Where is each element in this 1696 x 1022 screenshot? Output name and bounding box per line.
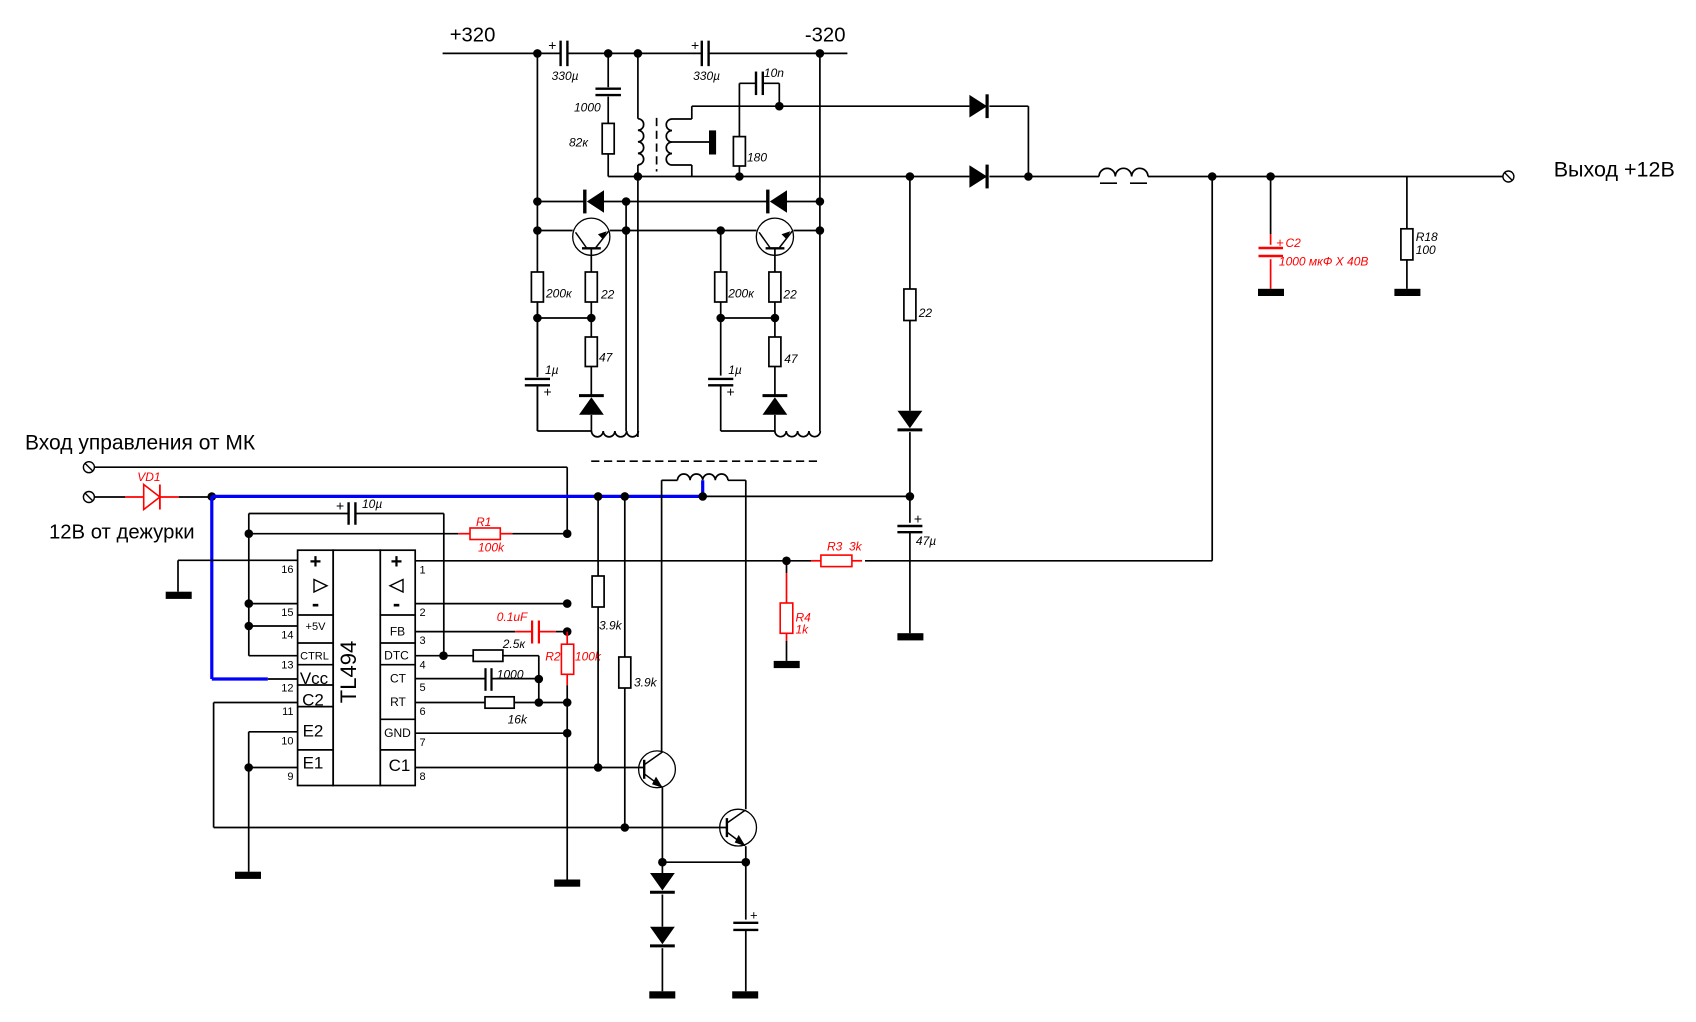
svg-text:6: 6 — [420, 706, 426, 718]
svg-text:10n: 10n — [764, 66, 784, 80]
junction R1 node — [245, 529, 254, 538]
wire blue 12V net — [212, 480, 703, 679]
resistor R2 100k — [545, 632, 602, 703]
resistor 47 #2 — [769, 318, 799, 367]
svg-text:Vcc: Vcc — [300, 669, 329, 688]
svg-text:+5V: +5V — [306, 621, 327, 633]
junction 318 a — [533, 314, 542, 323]
wire pin12 Vcc stub — [268, 678, 298, 680]
transistor Q1 — [573, 218, 610, 255]
junction x=1270.6 — [1266, 172, 1275, 181]
capacitor 1u #1 — [525, 318, 559, 400]
U1 pin numbers — [281, 564, 425, 783]
wire 10n right lead — [763, 83, 780, 106]
junction R1 right — [563, 529, 572, 538]
junction base row x=537.4 — [533, 226, 542, 235]
wire link y=318 cell2 — [721, 302, 775, 318]
label 12В от дежурки — [49, 522, 195, 544]
junction pin15 — [245, 599, 254, 608]
svg-text:+: + — [914, 511, 922, 527]
svg-text:1µ: 1µ — [545, 363, 559, 377]
capacitor electrolytic Q4 — [733, 862, 758, 991]
terminal output — [1503, 171, 1514, 182]
svg-text:E1: E1 — [303, 754, 324, 773]
junction blue tap — [698, 492, 707, 501]
wire Q1 base lead — [590, 248, 592, 272]
junction E1/E2 — [244, 763, 253, 772]
junction top rail x=608.2 — [604, 49, 613, 58]
wire input1 to x=567.2 — [94, 467, 567, 534]
svg-text:C2: C2 — [302, 691, 324, 710]
wire blue to 47u — [703, 495, 910, 497]
svg-text:8: 8 — [420, 771, 426, 783]
junction pin2 — [563, 599, 572, 608]
ground R4 — [774, 661, 800, 668]
junction 10n at y=106 — [775, 102, 784, 111]
svg-text:1000: 1000 — [574, 101, 601, 115]
svg-text:1: 1 — [420, 564, 426, 576]
resistor 22 #1 — [585, 272, 614, 302]
ground E1 — [235, 872, 261, 879]
junction blue x=909.9 — [906, 492, 915, 501]
capacitor 0.1uF — [415, 610, 567, 644]
U1 cell labels — [300, 551, 411, 775]
wire VD1 to junction — [179, 496, 212, 498]
resistor 3.9k #2 — [619, 496, 658, 827]
label Выход +12В — [1554, 158, 1675, 182]
resistor R1 100k — [249, 515, 567, 555]
junction GND pin7 — [563, 729, 572, 738]
diode D3 — [579, 367, 604, 432]
wire 200k2 top — [720, 231, 722, 273]
svg-text:100k: 100k — [478, 541, 505, 555]
svg-text:RT: RT — [390, 695, 406, 709]
svg-text:TL494: TL494 — [336, 641, 361, 703]
ground x567 — [554, 880, 580, 887]
capacitor 1000 CT — [415, 668, 539, 691]
svg-text:+320: +320 — [450, 25, 496, 47]
svg-text:5: 5 — [420, 682, 426, 694]
wire Q3 emitter — [661, 787, 663, 862]
wire emitter link — [662, 861, 745, 863]
wire pin15 — [249, 603, 298, 605]
diode D4 — [763, 367, 788, 432]
svg-text:Вход управления от МК: Вход управления от МК — [25, 432, 256, 455]
svg-text:13: 13 — [281, 659, 293, 671]
junction 318 b — [587, 314, 596, 323]
svg-text:2: 2 — [420, 607, 426, 619]
svg-text:C2: C2 — [1286, 236, 1302, 250]
svg-text:CT: CT — [390, 672, 407, 686]
junction 180 at y=176.5 — [735, 172, 744, 181]
wire RT to x567 — [539, 702, 567, 704]
resistor 200k #1 — [531, 272, 573, 302]
T1 core bar — [709, 130, 716, 154]
junction base row x=720.7 — [716, 226, 725, 235]
svg-text:Выход +12В: Выход +12В — [1554, 158, 1675, 182]
diode D6 rectifier bottom — [969, 165, 987, 189]
wire y=176.5 output line — [638, 176, 970, 178]
wire CT-RT link — [538, 679, 540, 703]
transistor Q4 — [720, 809, 757, 846]
junction top rail x=537.4 — [533, 49, 542, 58]
base winding W1 — [592, 431, 639, 437]
svg-text:11: 11 — [282, 706, 293, 718]
junction primary bottom x=637.9 — [634, 172, 643, 181]
resistor 22 #3 — [904, 289, 932, 321]
svg-text:22: 22 — [782, 288, 797, 302]
junction pin3 FB — [563, 627, 572, 636]
svg-text:+: + — [1276, 235, 1284, 250]
svg-text:E2: E2 — [303, 722, 324, 741]
wire pin9 E1 — [249, 767, 298, 769]
capacitor 330u #2 — [691, 37, 720, 83]
capacitor 10n — [756, 66, 784, 95]
svg-text:-320: -320 — [805, 25, 846, 47]
diode D8 — [650, 927, 675, 946]
svg-text:330µ: 330µ — [552, 69, 579, 83]
wire 22 to D — [909, 321, 911, 411]
transformer T1 primary winding — [638, 119, 644, 165]
junction 318 c — [716, 314, 725, 323]
junction Q3 em — [658, 858, 667, 867]
wire primary rail x=637.9 — [637, 53, 639, 437]
junction top rail x=819.9 — [816, 49, 825, 58]
junction Q4 em — [742, 858, 751, 867]
svg-text:200к: 200к — [545, 287, 573, 301]
junction 318 d — [771, 314, 780, 323]
wire top rail y=53.4 — [443, 52, 848, 54]
svg-text:+: + — [727, 384, 735, 400]
label Вход управления от МК — [25, 432, 256, 455]
svg-text:82к: 82к — [569, 136, 589, 150]
svg-text:0.1uF: 0.1uF — [497, 610, 528, 624]
svg-text:10µ: 10µ — [362, 497, 382, 511]
svg-text:14: 14 — [281, 630, 293, 642]
svg-text:1µ: 1µ — [728, 363, 742, 377]
capacitor C2 1000uF — [1259, 177, 1369, 289]
svg-text:R18: R18 — [1416, 230, 1438, 244]
wire pin7 GND — [415, 732, 567, 734]
wire pin1 feedback line — [415, 177, 1212, 561]
wire secondary bottom lead — [672, 165, 692, 177]
wire rail x=819.9 drop — [819, 53, 821, 431]
U1 label TL494 — [336, 641, 361, 703]
svg-text:GND: GND — [384, 726, 411, 740]
capacitor 10u — [249, 497, 444, 525]
wire pin14 — [249, 625, 298, 627]
svg-text:DTC: DTC — [384, 649, 409, 663]
svg-text:16: 16 — [281, 564, 293, 576]
wire link y=318 cell1 — [537, 302, 591, 318]
wire x=608.2 upper — [607, 53, 609, 87]
svg-text:-: - — [312, 591, 319, 616]
wire D5 to corner — [989, 106, 1028, 176]
junction blue x=624.8 — [621, 492, 630, 501]
wire D8 to ground — [661, 948, 663, 991]
wire Q4 emitter — [745, 846, 747, 862]
wire diode row y=201.5 — [537, 201, 820, 203]
svg-text:VD1: VD1 — [137, 470, 160, 484]
junction RT a — [535, 698, 544, 707]
junction DTC — [439, 651, 448, 660]
ground R18 — [1394, 289, 1420, 296]
transformer T1 secondary winding — [666, 119, 672, 165]
junction x=909.9 y=176.5 — [906, 172, 915, 181]
dashed separator — [591, 460, 817, 462]
resistor R4 1k — [780, 561, 811, 661]
svg-text:+: + — [336, 498, 344, 514]
wire vertical x=248.8 — [248, 514, 250, 656]
terminal input 2 — [83, 492, 94, 503]
transformer T1 core — [656, 118, 658, 172]
junction pin14 — [245, 622, 254, 631]
svg-text:1000 мкФ X 40В: 1000 мкФ X 40В — [1279, 255, 1368, 269]
svg-text:R2: R2 — [545, 650, 561, 664]
wire Q2 base lead — [774, 248, 776, 272]
wire pin2 — [415, 603, 567, 605]
svg-text:7: 7 — [420, 737, 426, 749]
svg-text:100: 100 — [1416, 243, 1436, 257]
wire pin13 — [249, 655, 298, 657]
resistor R18 — [1401, 177, 1438, 289]
svg-text:-: - — [393, 591, 400, 616]
ground pin16 — [166, 592, 192, 599]
junction 3.9k2 base Q4 — [621, 823, 630, 832]
junction rectifier out — [1024, 172, 1033, 181]
svg-text:180: 180 — [747, 151, 767, 165]
transistor Q3 — [639, 751, 676, 788]
wire 10u right drop — [443, 514, 445, 656]
transformer T2 winding — [662, 474, 746, 480]
wire 10n left lead — [739, 83, 756, 136]
svg-text:9: 9 — [287, 771, 293, 783]
svg-text:4: 4 — [420, 659, 426, 671]
ground C2 — [1258, 289, 1284, 296]
wire 1u bottom #2 — [721, 385, 775, 431]
svg-text:CTRL: CTRL — [300, 651, 329, 663]
svg-text:10: 10 — [281, 735, 293, 747]
capacitor 47u — [897, 496, 936, 633]
junction VD1 out — [208, 492, 217, 501]
wire 82k to primary — [608, 154, 638, 177]
diode D5 rectifier top — [969, 94, 987, 118]
wire rail x=537.4 — [536, 53, 538, 431]
junction base row x=626.1 — [622, 226, 631, 235]
ground 47u — [897, 633, 923, 640]
svg-text:+: + — [691, 37, 699, 53]
inductor L1 output choke — [1099, 168, 1148, 183]
wire y=106.2 line — [692, 105, 970, 107]
junction R3 node — [782, 557, 791, 566]
svg-text:+: + — [548, 37, 556, 53]
diode D1 — [585, 190, 604, 214]
wire D6 to inductor — [989, 176, 1099, 178]
svg-text:22: 22 — [600, 288, 615, 302]
resistor 47 #1 — [585, 318, 613, 367]
junction CT — [535, 675, 544, 684]
wire x=626.1 drop — [625, 202, 627, 432]
wire T2 right leg — [745, 480, 747, 809]
svg-text:FB: FB — [390, 625, 405, 639]
wire E1 to ground — [248, 768, 250, 872]
svg-text:47: 47 — [784, 352, 799, 366]
IC U1 TL494 body — [298, 550, 416, 785]
svg-text:+: + — [750, 908, 758, 923]
diode D2 — [768, 190, 787, 214]
node -320 label — [805, 25, 846, 47]
wire D to blue — [909, 432, 911, 496]
capacitor 330u #1 — [548, 37, 578, 83]
junction C1 — [594, 763, 603, 772]
node +320 label — [450, 25, 496, 47]
transistor Q2 — [756, 218, 793, 255]
svg-text:+: + — [310, 551, 322, 573]
ground cap Q4 — [732, 991, 758, 998]
junction x=1212.2 — [1208, 172, 1217, 181]
svg-text:2.5к: 2.5к — [502, 637, 527, 651]
base winding W2 — [775, 431, 820, 437]
svg-text:C1: C1 — [389, 756, 411, 775]
svg-text:330µ: 330µ — [693, 69, 720, 83]
wire input2 — [94, 496, 125, 498]
diode D down x910 — [898, 411, 923, 430]
wire D7-D8 — [661, 895, 663, 927]
svg-text:47µ: 47µ — [916, 534, 936, 548]
svg-text:+: + — [391, 551, 403, 573]
resistor 82k — [569, 123, 614, 153]
junction diode row x=819.9 — [816, 197, 825, 206]
svg-text:3.9k: 3.9k — [634, 676, 658, 690]
wire base row y=230.5 — [537, 230, 820, 232]
wire 2.5k to CT node — [503, 656, 539, 680]
junction diode row x=537.4 — [533, 197, 542, 206]
junction top rail x=637.9 — [634, 49, 643, 58]
wire cap1000 to 82k — [607, 97, 609, 124]
svg-text:1000: 1000 — [497, 668, 524, 682]
wire pin8 C1 — [415, 767, 644, 769]
junction diode row x=626.1 — [622, 197, 631, 206]
wire T1 center tap — [672, 141, 709, 143]
wire pin4 DTC — [415, 655, 473, 657]
resistor 180 — [733, 137, 767, 166]
junction blue x=597.8 — [594, 492, 603, 501]
svg-text:1k: 1k — [796, 623, 810, 637]
svg-text:R3 3k: R3 3k — [827, 540, 863, 554]
ground D8 — [649, 991, 675, 998]
resistor 3.9k #1 — [592, 496, 623, 767]
wire 1u bottom #1 — [537, 385, 591, 431]
capacitor 1u #2 — [708, 318, 742, 400]
svg-text:16k: 16k — [508, 713, 528, 727]
svg-text:15: 15 — [281, 607, 293, 619]
diode D7 — [650, 862, 675, 892]
wire x=909.9 top — [909, 177, 911, 290]
wire pin10 E2 — [249, 732, 298, 768]
junction RT b — [563, 698, 572, 707]
svg-text:12В от дежурки: 12В от дежурки — [49, 522, 195, 544]
terminal input 1 — [83, 462, 94, 473]
junction base row x=819.9 — [816, 226, 825, 235]
wire 180 bottom — [738, 166, 740, 177]
svg-text:3.9k: 3.9k — [599, 619, 623, 633]
svg-text:R1: R1 — [476, 515, 491, 529]
wire secondary top lead — [672, 106, 692, 119]
wire x=567.2 lower — [566, 703, 568, 880]
resistor R3 3k — [787, 540, 863, 567]
diode VD1 — [125, 470, 179, 510]
wire pin16 to ground — [178, 560, 298, 591]
wire inductor to output — [1148, 176, 1503, 178]
svg-text:22: 22 — [918, 306, 933, 320]
capacitor 1000 snubber — [574, 89, 621, 115]
svg-text:47: 47 — [599, 351, 614, 365]
resistor 200k #2 — [715, 272, 756, 302]
svg-text:+: + — [544, 384, 552, 400]
svg-text:200к: 200к — [727, 287, 755, 301]
svg-text:12: 12 — [281, 683, 293, 695]
resistor 16k — [415, 697, 539, 727]
svg-text:3: 3 — [420, 635, 426, 647]
resistor 22 #2 — [769, 272, 797, 302]
resistor 2.5k — [473, 637, 526, 661]
wire T2 left leg — [661, 480, 663, 751]
wire pin11 C2 route — [214, 703, 727, 828]
